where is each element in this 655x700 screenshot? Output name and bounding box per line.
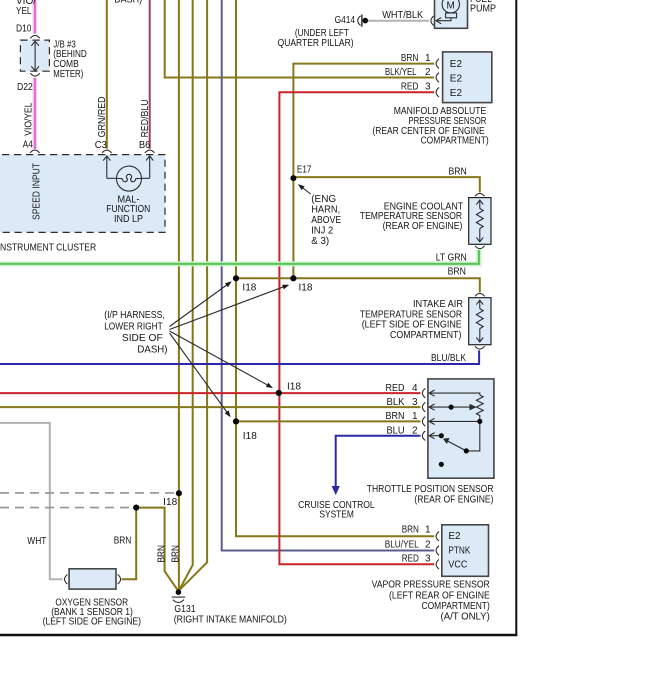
- svg-text:RED: RED: [401, 82, 419, 93]
- svg-text:I18: I18: [287, 382, 301, 393]
- svg-text:COMPARTMENT): COMPARTMENT): [390, 330, 461, 341]
- svg-text:BLK: BLK: [387, 397, 405, 408]
- svg-text:BRN: BRN: [448, 267, 466, 278]
- svg-text:PUMP: PUMP: [470, 3, 496, 14]
- svg-text:B6: B6: [139, 140, 151, 151]
- svg-text:I18: I18: [242, 283, 256, 294]
- svg-text:I18: I18: [299, 283, 313, 294]
- svg-text:VAPOR PRESSURE SENSOR: VAPOR PRESSURE SENSOR: [372, 580, 490, 591]
- svg-text:BRN: BRN: [401, 53, 419, 64]
- svg-text:1: 1: [425, 524, 431, 535]
- svg-text:4: 4: [412, 383, 418, 394]
- svg-text:I18: I18: [243, 431, 257, 442]
- svg-text:C3: C3: [95, 140, 107, 151]
- svg-text:BRN: BRN: [157, 545, 168, 563]
- svg-text:BRN: BRN: [171, 545, 182, 563]
- svg-text:& 3): & 3): [311, 236, 329, 247]
- svg-text:E2: E2: [450, 59, 463, 70]
- svg-text:SPEED INPUT: SPEED INPUT: [31, 163, 42, 220]
- svg-text:D22: D22: [17, 82, 33, 93]
- svg-text:BLU/BLK: BLU/BLK: [431, 353, 466, 364]
- svg-text:(LEFT SIDE OF ENGINE): (LEFT SIDE OF ENGINE): [43, 617, 141, 628]
- svg-text:THROTTLE POSITION SENSOR: THROTTLE POSITION SENSOR: [367, 484, 494, 495]
- svg-text:SYSTEM: SYSTEM: [319, 510, 354, 521]
- svg-text:3: 3: [425, 554, 431, 565]
- svg-text:BRN: BRN: [402, 524, 419, 535]
- svg-text:BRN: BRN: [114, 536, 132, 547]
- svg-text:G131: G131: [174, 604, 196, 615]
- svg-text:(REAR OF ENGINE): (REAR OF ENGINE): [383, 221, 463, 232]
- svg-text:SIDE OF: SIDE OF: [122, 333, 163, 344]
- svg-text:DASH): DASH): [114, 0, 142, 5]
- svg-text:DASH): DASH): [137, 344, 167, 355]
- svg-text:WHT/BLK: WHT/BLK: [382, 10, 423, 21]
- svg-text:LOWER RIGHT: LOWER RIGHT: [104, 321, 163, 332]
- svg-text:(A/T ONLY): (A/T ONLY): [441, 612, 490, 623]
- svg-text:BRN: BRN: [449, 167, 467, 178]
- svg-text:RED/BLU: RED/BLU: [140, 99, 151, 137]
- svg-text:VIO/YEL: VIO/YEL: [24, 102, 35, 135]
- svg-text:(ENG: (ENG: [311, 194, 336, 205]
- svg-text:E2: E2: [448, 531, 461, 542]
- svg-text:(RIGHT INTAKE MANIFOLD): (RIGHT INTAKE MANIFOLD): [174, 615, 287, 626]
- svg-text:BLU/YEL: BLU/YEL: [385, 540, 419, 551]
- svg-text:E2: E2: [450, 88, 463, 99]
- svg-text:A4: A4: [23, 139, 33, 150]
- svg-text:WHT: WHT: [27, 536, 46, 547]
- svg-text:BLK/YEL: BLK/YEL: [385, 67, 417, 78]
- svg-text:3: 3: [412, 397, 418, 408]
- svg-text:(I/P HARNESS,: (I/P HARNESS,: [104, 310, 165, 321]
- svg-text:2: 2: [412, 425, 418, 436]
- svg-text:RED: RED: [402, 554, 419, 565]
- svg-text:RED: RED: [386, 383, 405, 394]
- svg-text:E2: E2: [450, 73, 463, 84]
- svg-text:YEL: YEL: [16, 6, 32, 17]
- svg-text:LT GRN: LT GRN: [436, 253, 467, 264]
- svg-text:QUARTER PILLAR): QUARTER PILLAR): [278, 38, 354, 49]
- svg-text:G414: G414: [335, 15, 356, 26]
- svg-text:M: M: [447, 1, 455, 12]
- svg-text:BLU: BLU: [387, 425, 405, 436]
- svg-text:E17: E17: [297, 165, 312, 176]
- svg-text:COMPARTMENT): COMPARTMENT): [422, 601, 490, 612]
- svg-text:INTAKE AIR: INTAKE AIR: [413, 299, 463, 310]
- svg-text:VCC: VCC: [448, 560, 467, 571]
- svg-text:COMPARTMENT): COMPARTMENT): [421, 136, 489, 147]
- svg-text:METER): METER): [53, 69, 83, 80]
- svg-text:1: 1: [425, 53, 431, 64]
- svg-text:3: 3: [425, 82, 431, 93]
- svg-text:I18: I18: [163, 497, 177, 508]
- svg-text:IND LP: IND LP: [114, 214, 143, 225]
- svg-text:(LEFT SIDE OF ENGINE: (LEFT SIDE OF ENGINE: [362, 320, 462, 331]
- svg-text:NSTRUMENT CLUSTER: NSTRUMENT CLUSTER: [0, 243, 96, 254]
- svg-text:GRN/RED: GRN/RED: [97, 96, 108, 137]
- svg-text:1: 1: [412, 411, 418, 422]
- svg-text:BRN: BRN: [386, 411, 405, 422]
- svg-text:D10: D10: [16, 24, 32, 35]
- svg-text:2: 2: [425, 540, 431, 551]
- svg-text:2: 2: [425, 67, 431, 78]
- svg-text:ABOVE: ABOVE: [311, 215, 341, 226]
- svg-text:INJ 2: INJ 2: [311, 226, 333, 237]
- svg-text:HARN,: HARN,: [311, 205, 340, 216]
- svg-text:(REAR OF ENGINE): (REAR OF ENGINE): [414, 495, 493, 506]
- svg-text:PTNK: PTNK: [448, 545, 470, 556]
